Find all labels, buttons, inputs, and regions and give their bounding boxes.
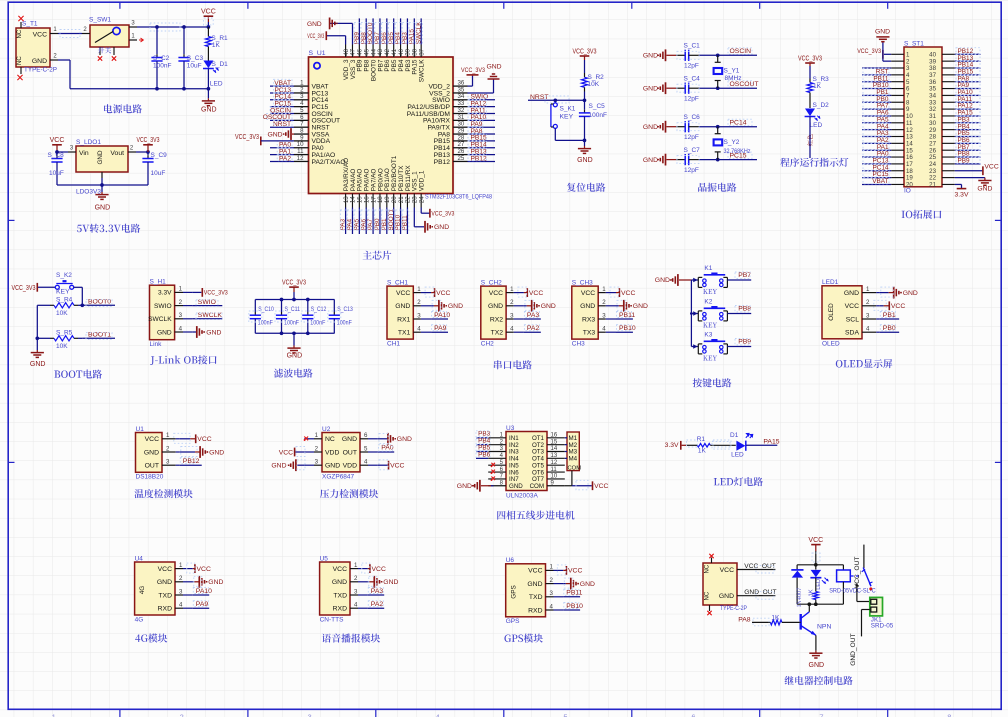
wire/net PA0 U1 left [270, 141, 294, 149]
pin 7 ST1 [891, 93, 910, 100]
svg-text:2: 2 [315, 445, 319, 452]
ground flag GND jlink [192, 326, 221, 338]
svg-text:S_CH1: S_CH1 [387, 279, 408, 286]
pin VCC_OUT [737, 563, 776, 573]
pin 4 U2 VDD [343, 459, 378, 470]
pin GND_OUT [737, 589, 777, 599]
pin 42 U1 PB6 (top) [384, 45, 391, 72]
module S_CH2 body [481, 279, 506, 347]
wire/net PA8 U1 right [468, 127, 496, 135]
svg-text:100nF: 100nF [258, 319, 273, 326]
LED S_D1 [203, 61, 228, 88]
svg-text:VCC: VCC [984, 164, 998, 171]
svg-text:GND: GND [271, 463, 286, 470]
wire pin21 to 3.3V [955, 184, 962, 188]
ground flag VSSA [267, 128, 294, 140]
pin 10 U3 OT7 [532, 474, 565, 484]
wire/net PA3 S_CH2 pin3 [524, 312, 541, 320]
pin 37 ST1 [929, 72, 955, 79]
junction at C3 top [182, 25, 186, 29]
svg-text:GND: GND [457, 483, 472, 490]
LED D2 color note [807, 134, 812, 146]
pin 6 U3 IN6 [488, 467, 519, 477]
wire/net PB4 U3 [476, 438, 491, 445]
svg-text:8: 8 [947, 713, 951, 717]
pin 34 U1 SWIO [432, 93, 467, 104]
svg-text:VCC: VCC [197, 436, 211, 443]
svg-text:GND: GND [332, 579, 347, 586]
svg-text:GND: GND [32, 58, 47, 65]
capacitor S_C11 100nF [275, 300, 300, 334]
power flag VCC stepper [593, 481, 609, 490]
svg-text:S_K1: S_K1 [560, 106, 576, 113]
svg-text:BOOT1: BOOT1 [88, 331, 111, 338]
pin 5 U1 OSCIN [294, 107, 333, 118]
svg-text:GND: GND [383, 579, 398, 586]
junction C12 bottom [306, 331, 310, 335]
svg-text:PA8: PA8 [738, 617, 751, 624]
pin 46 U1 PB9 (top) [357, 45, 364, 72]
pin 36 U1 VDD_2 [428, 80, 467, 91]
wire/net PB5 U3 [476, 444, 491, 451]
svg-text:VCC: VCC [145, 436, 159, 443]
title GPS模块 [504, 634, 542, 643]
svg-text:GND: GND [434, 224, 449, 231]
ground flag S_C4 [643, 82, 676, 94]
capacitor S_C9 10uF [142, 152, 167, 185]
pin 1 U1 VBAT [294, 80, 328, 91]
svg-text:NC: NC [17, 56, 23, 65]
power flag VCC_3V3 filter [282, 280, 306, 300]
resistor S_R2 10K [582, 60, 605, 100]
pin 33 U1 PA12/USB/DP [407, 100, 467, 111]
pin 14 ST1 [891, 140, 913, 147]
wire/net PB10 S_CH3 pin4 [616, 325, 636, 333]
power flag VCC_3V3 boot [12, 283, 38, 292]
title LED灯电路 [714, 477, 763, 486]
wire/net BOOT0 top [367, 18, 374, 44]
wire/net PA2 U1 left [270, 155, 294, 163]
svg-text:1K: 1K [212, 42, 221, 49]
pin 20 U1 PB2/BOOT1 (bottom) [391, 155, 398, 207]
pin 25 U1 PB12 [434, 155, 468, 166]
svg-text:VCC: VCC [436, 290, 450, 297]
svg-text:4: 4 [364, 459, 368, 466]
pin 43 U1 PB7 (top) [377, 45, 384, 72]
svg-text:OLED: OLED [828, 303, 835, 321]
wire D2 down [809, 117, 811, 159]
svg-text:R1: R1 [697, 436, 706, 443]
pin 38 ST1 [929, 65, 955, 72]
power flag VCC ldo [50, 137, 65, 152]
pin 4 S_CH2 TX2 [491, 326, 524, 337]
pin 9 U1 VDDA [294, 134, 331, 145]
wire/net RST io-left [862, 68, 891, 75]
svg-text:GND: GND [325, 463, 340, 470]
junction C3 bottom [182, 87, 186, 91]
pin 31 U1 PA10/RX [423, 114, 468, 125]
pin 3 U1 OUT [145, 459, 180, 470]
ground flag VSS_1 [425, 221, 449, 233]
pin 1 S_CH1 VCC [396, 286, 431, 297]
svg-text:VDD: VDD [343, 463, 357, 470]
svg-text:S_C5: S_C5 [589, 103, 606, 110]
wire/net PC13 io-left [862, 157, 891, 164]
pin 12 U3 OT5 [532, 460, 565, 470]
svg-text:GND: GND [541, 303, 556, 310]
svg-text:VCC: VCC [33, 31, 47, 38]
wire JK1 pin2 GND_OUT [850, 610, 870, 666]
svg-text:25: 25 [458, 155, 465, 162]
svg-text:VCC: VCC [390, 463, 404, 470]
svg-text:20: 20 [906, 182, 913, 189]
svg-text:GND: GND [144, 449, 159, 456]
wire/net PB6 top [381, 18, 388, 44]
svg-text:14: 14 [551, 446, 558, 452]
ground flag GND U4 pin2 [193, 576, 224, 588]
capacitor S_C13 100nF [328, 300, 353, 334]
title IO拓展口 [902, 210, 942, 219]
svg-text:GND: GND [97, 150, 104, 164]
svg-text:2: 2 [602, 299, 606, 306]
wire VDD_2 to VCC_3V3 [468, 76, 473, 86]
pin 14 U3 OT3 [532, 446, 565, 456]
wire COM to VCC [565, 480, 592, 490]
svg-text:GND: GND [448, 303, 463, 310]
svg-text:3.3V: 3.3V [955, 192, 969, 199]
svg-text:S_U1: S_U1 [309, 50, 326, 57]
svg-text:2: 2 [179, 299, 183, 306]
svg-text:RXD: RXD [528, 607, 542, 614]
svg-text:NC: NC [705, 591, 711, 600]
pin 1 U2 NC [304, 432, 335, 443]
wire/net SWCLK jlink [192, 312, 222, 320]
wire/net PA2 S_CH2 pin4 [524, 325, 541, 333]
svg-text:5: 5 [563, 713, 567, 717]
svg-text:GND: GND [719, 593, 734, 600]
wire T1.GND down to bottom rail [58, 60, 70, 89]
svg-text:3: 3 [166, 459, 170, 466]
ground flag GND S_CH3 pin2 [616, 300, 648, 312]
svg-text:VCC: VCC [529, 290, 543, 297]
wire/net BOOT1 [82, 331, 115, 339]
pin 4 U6 RXD [528, 603, 563, 614]
ground GND relay [809, 651, 825, 669]
svg-text:GPS: GPS [511, 585, 518, 599]
crystal S_Y2 32.768KHz [714, 127, 751, 160]
title 5V转3.3V电路 [77, 224, 140, 233]
key K3 [691, 331, 727, 360]
wire/net PA0 U2 pin5 [378, 444, 394, 452]
power flag VCC_3V3 vdd2 [461, 67, 485, 76]
pin 2 U6 GND [527, 577, 563, 588]
svg-text:S_SW1: S_SW1 [89, 17, 111, 24]
pin 7 U1 NRST [294, 121, 330, 132]
junction Y2 bottom [716, 158, 720, 162]
pin 2 S_CH3 GND [580, 299, 616, 310]
pin 6 ST1 [891, 86, 910, 93]
capacitor S_C2 100nF [151, 27, 171, 89]
resistor 1K relay [808, 578, 818, 605]
filter bottom rail [255, 332, 334, 334]
junction keys rail K2 [690, 312, 693, 315]
svg-text:CH3: CH3 [572, 340, 585, 347]
svg-text:S_C2: S_C2 [153, 55, 170, 62]
wire VDD_3 to VCC_3V3 flag [326, 36, 345, 45]
ground flag VSS_3 [307, 18, 338, 30]
wire gnd to pin2 [883, 43, 891, 62]
svg-text:PB12: PB12 [471, 155, 487, 162]
svg-text:6: 6 [364, 432, 368, 439]
wire/net PA5 bottom [353, 208, 360, 235]
svg-text:S_CH2: S_CH2 [481, 279, 502, 286]
svg-text:1: 1 [52, 713, 56, 717]
svg-text:4: 4 [417, 326, 421, 333]
svg-text:3: 3 [315, 459, 319, 466]
junction Y2 top [716, 125, 720, 129]
svg-text:16: 16 [551, 433, 558, 439]
ground flag S_C1 [643, 49, 676, 61]
switch S_SW1 [89, 17, 129, 56]
svg-text:TX3: TX3 [583, 330, 596, 337]
LED S_D2 [805, 102, 830, 129]
svg-text:37: 37 [418, 48, 425, 55]
power flag VCC LED1 pin2 [874, 300, 906, 310]
svg-text:STM32F103C8T6_LQFP48: STM32F103C8T6_LQFP48 [425, 194, 492, 201]
junction C8 top [55, 150, 59, 154]
svg-text:COM: COM [568, 465, 582, 471]
filter top rail [255, 299, 334, 301]
pin 5 U2 OUT [343, 445, 378, 456]
pin 13 U1 PA3/RX/AO (bottom) [343, 158, 350, 208]
module LED1 body [822, 279, 862, 347]
wire/net PB11 bottom [402, 208, 409, 235]
power flag VCC_3V3 vdd3 [307, 31, 326, 40]
title 滤波电路 [274, 368, 313, 377]
pin 21 U1 PB10/TX (bottom) [398, 165, 405, 208]
svg-text:U4: U4 [135, 555, 144, 562]
pin 14 U1 PA4/AO (bottom) [350, 169, 357, 208]
svg-text:S_D1: S_D1 [212, 61, 229, 68]
svg-text:TX1: TX1 [398, 330, 411, 337]
pin 2 U2 VDD [304, 445, 339, 456]
wire/net PB9 io-right [955, 157, 981, 164]
svg-text:TXD: TXD [333, 592, 347, 599]
svg-text:100nF: 100nF [337, 319, 352, 326]
module S_CH1 body [387, 279, 413, 347]
svg-text:U3: U3 [506, 425, 515, 432]
svg-text:NC: NC [705, 564, 711, 573]
U4 vertical label [139, 586, 146, 595]
svg-text:2: 2 [550, 577, 554, 584]
wire/net PA6 io-left [862, 109, 891, 116]
pin 18 ST1 [891, 168, 913, 175]
pin 2 S_CH1 GND [395, 299, 431, 310]
svg-text:GND: GND [977, 186, 992, 193]
svg-text:3.3V: 3.3V [665, 442, 679, 449]
pin 1 U4 VCC [158, 562, 193, 573]
wire switch to JK1 pin1 [855, 583, 870, 602]
svg-text:S_C6: S_C6 [684, 114, 701, 121]
pin 39 U1 PB3 (top) [405, 45, 412, 72]
module U5 body [320, 555, 350, 623]
wire/net PA15 led [687, 439, 780, 448]
svg-text:RX2: RX2 [490, 316, 503, 323]
wire vcc to K2 [38, 286, 55, 288]
pin 35 ST1 [929, 86, 955, 93]
title 电源电路 [104, 104, 142, 113]
relay bottom rail [797, 603, 843, 605]
wire pin23 to VCC [955, 170, 983, 172]
pin 4 U1 PC15 [294, 100, 329, 111]
pin 1 H1 3.3V [158, 286, 192, 297]
svg-text:CH2: CH2 [481, 340, 494, 347]
svg-text:NC: NC [17, 29, 23, 38]
pin 28 ST1 [929, 134, 955, 141]
diode 1N4007 flyback [791, 565, 803, 607]
svg-text:4: 4 [179, 325, 183, 332]
wire/net PB11 S_CH3 pin3 [616, 312, 635, 320]
pin 2 U1 PC13 [294, 86, 329, 97]
title 温度检测模块 [134, 489, 192, 498]
power flag VCC_3V3 progled [798, 55, 822, 66]
svg-text:GND: GND [307, 21, 322, 28]
svg-text:7: 7 [819, 713, 823, 717]
wire COM down [571, 471, 573, 486]
svg-text:KEY: KEY [560, 113, 574, 120]
keys left rail [690, 280, 692, 347]
main chip part name [425, 194, 492, 201]
svg-text:RXD: RXD [333, 606, 347, 613]
svg-text:LED: LED [210, 81, 223, 88]
pin 4 S_CH1 TX1 [398, 326, 431, 337]
svg-text:D1: D1 [730, 432, 739, 439]
pin 3 LED1 SCL [846, 312, 880, 323]
pin 3 S_CH3 RX3 [582, 312, 616, 323]
connector S_T1 TYPE-C-2P [16, 21, 57, 75]
wire/net PC15 U1 left [270, 100, 294, 108]
ground flag GND U2 pin3 [271, 459, 305, 471]
svg-text:LED: LED [731, 452, 744, 459]
wire/net PC14 U1 left [270, 93, 294, 101]
svg-text:VCC: VCC [581, 290, 595, 297]
wire VSS_3 to GND flag [330, 23, 352, 44]
svg-text:6: 6 [691, 713, 695, 717]
pin 32 ST1 [929, 106, 955, 113]
pin 19 U1 PB1/AO (bottom) [384, 168, 391, 207]
svg-text:1: 1 [510, 286, 514, 293]
wire/net PA9 U1 right [468, 120, 496, 128]
pin 1 U1 VCC [145, 432, 180, 443]
svg-text:GND: GND [157, 329, 172, 336]
wire/net PB6 io-right [955, 137, 981, 144]
svg-text:S_R3: S_R3 [813, 76, 830, 83]
pin 1 LED1 GND [844, 286, 880, 297]
wire/net PB1 io-left [862, 89, 891, 96]
wire/net PB9 top [353, 18, 360, 44]
power flag VCC_3V3 ldo [137, 137, 160, 152]
connector JK1 SRD-05 [870, 597, 894, 629]
wire/net PB3 io-right [955, 116, 981, 123]
ground flag GND U6 pin2 [563, 578, 595, 590]
wire/net PA10 S_CH1 pin3 [431, 312, 450, 320]
svg-text:GND: GND [875, 29, 890, 36]
svg-text:1: 1 [315, 432, 319, 439]
svg-text:4: 4 [866, 326, 870, 333]
wire/net PB1 LED1 pin3 [880, 312, 899, 320]
ground flag GND LED1 pin1 [880, 287, 918, 299]
pin 1 ST1 [891, 51, 910, 58]
pin 39 ST1 [929, 58, 955, 65]
wire/net PA4 bottom [347, 208, 354, 235]
wire/net PB13 U1 right [468, 148, 496, 156]
pin 4 S_CH3 TX3 [583, 326, 616, 337]
capacitor S_C5 100nF [579, 100, 607, 140]
svg-text:VDD: VDD [325, 449, 339, 456]
pin 24 ST1 [929, 161, 955, 168]
svg-text:10K: 10K [588, 81, 600, 88]
pin 48 U1 VDD_3 (top) [343, 45, 350, 81]
pin 47 U1 VSS_3 (top) [350, 45, 357, 80]
svg-text:S_Y2: S_Y2 [724, 139, 740, 146]
power flag VCC U2 pin4 [378, 460, 405, 470]
no-connect U3 pin7 [491, 477, 495, 482]
svg-text:12: 12 [551, 460, 558, 466]
pin 2 U1 GND [144, 445, 180, 456]
pin 15 U1 PA5/AO (bottom) [357, 169, 364, 208]
motor connector M1-M4 [567, 432, 581, 471]
junction BOOT0 node [80, 303, 84, 307]
junction R5 left [35, 336, 39, 340]
relay top rail [797, 564, 843, 566]
svg-text:VCC_3V3: VCC_3V3 [282, 280, 306, 287]
svg-text:SWIO: SWIO [154, 303, 172, 310]
svg-text:LED: LED [810, 122, 823, 129]
pin 11 ST1 [891, 120, 913, 127]
svg-text:VCC_3V3: VCC_3V3 [798, 55, 822, 62]
wire/net PA10 io-right [955, 89, 981, 96]
svg-text:GND: GND [527, 581, 542, 588]
svg-text:VCC_OUT: VCC_OUT [744, 563, 776, 570]
pin 27 U1 PB14 [434, 141, 468, 152]
svg-text:S_CH3: S_CH3 [572, 279, 593, 286]
svg-text:VCC_3V3: VCC_3V3 [461, 67, 485, 74]
pin 45 U1 PB8 (top) [363, 45, 370, 72]
wire/net VBAT U1 left [270, 79, 294, 87]
title 压力检测模块 [320, 489, 378, 498]
svg-text:VCC: VCC [568, 568, 582, 575]
wire/net PA0 io-left [862, 150, 891, 157]
svg-text:NRST: NRST [530, 94, 549, 101]
svg-text:1K: 1K [771, 615, 780, 622]
wire/net PA15 top [408, 18, 415, 44]
capacitor S_C12 100nF [301, 300, 326, 334]
ground flag S_C7 [643, 154, 676, 166]
svg-text:3: 3 [354, 588, 358, 595]
wire/net PA10 U4 pin3 [193, 588, 212, 596]
svg-text:3: 3 [602, 312, 606, 319]
svg-text:10uF: 10uF [49, 170, 64, 177]
pin 26 U1 PB13 [434, 148, 468, 159]
regulator S_LDO1 LDO3V3 [76, 139, 128, 196]
svg-text:3: 3 [179, 312, 183, 319]
pin 16 U1 PA6/AO (bottom) [363, 169, 370, 208]
pin 2 S_CH2 GND [488, 299, 524, 310]
svg-text:12pF: 12pF [684, 134, 699, 141]
svg-text:3: 3 [179, 588, 183, 595]
no-connect marks SW1 [98, 56, 116, 60]
pin 37 U1 SWCLK (top) [418, 45, 425, 83]
